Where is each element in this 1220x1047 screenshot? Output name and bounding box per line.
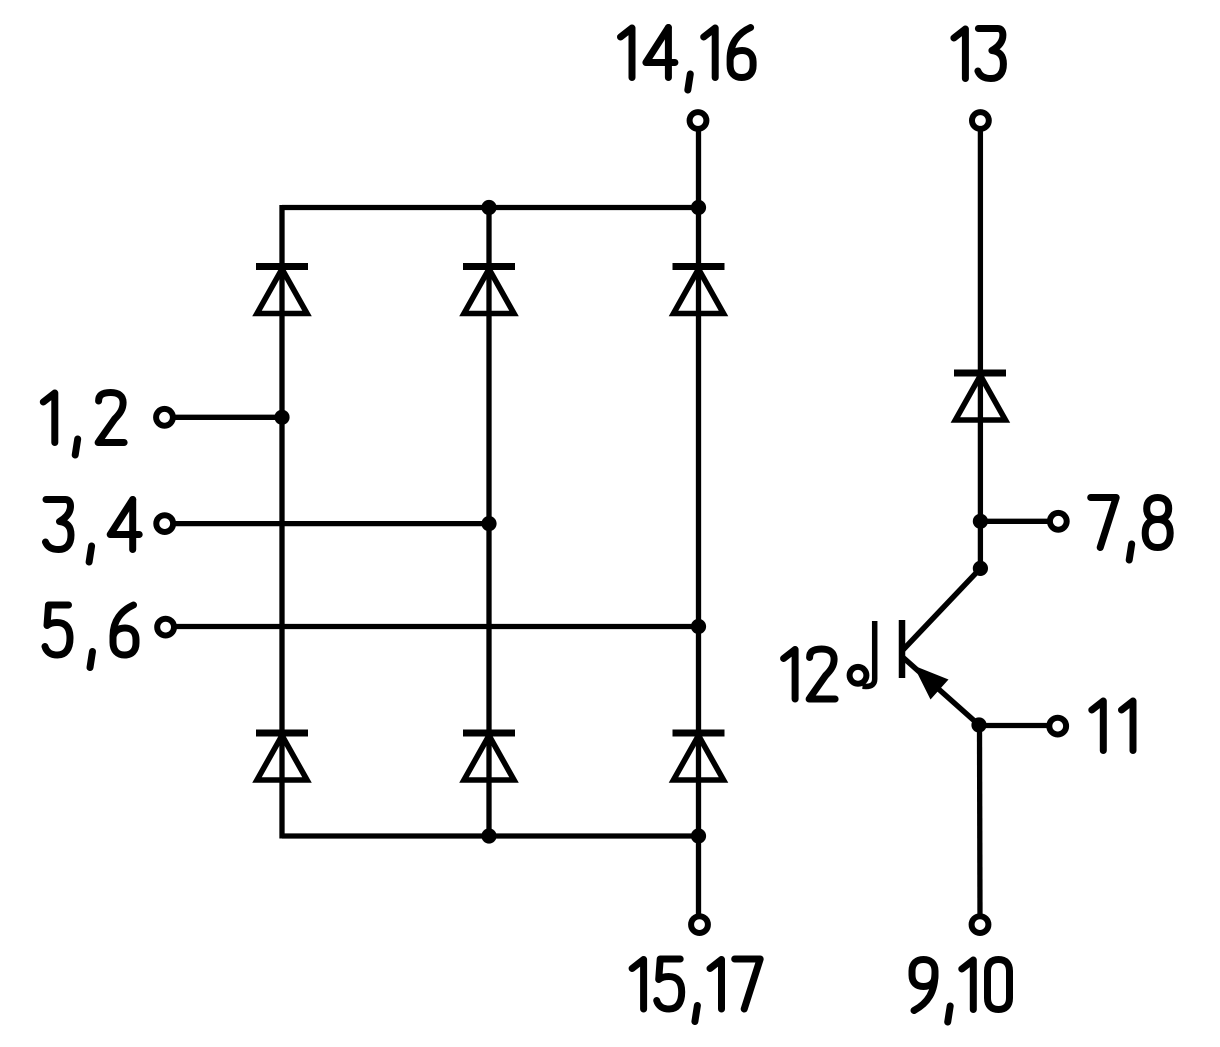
- terminal circle 11: [1049, 718, 1066, 735]
- diode D6 lower-right: triangle: [674, 736, 724, 781]
- diode D2 upper-middle: cathode bar: [463, 263, 515, 270]
- diode D7 right branch: triangle: [955, 376, 1005, 421]
- pin label 15,17: [632, 959, 760, 1022]
- diode D2 upper-middle: triangle: [464, 269, 514, 314]
- junction bottom bus / phase2: [481, 828, 496, 843]
- junction collector node: [973, 561, 988, 576]
- wire top bus: [282, 205, 699, 210]
- transistor Q1 collector lead: [901, 568, 980, 652]
- wire emitter to terminal 9,10: [977, 725, 983, 917]
- junction emitter node: [971, 717, 986, 732]
- terminal circle 15,17: [691, 916, 708, 933]
- transistor Q1 emitter lead: [902, 657, 979, 726]
- diode D7 right branch: cathode bar: [954, 370, 1006, 377]
- wire lead 1,2: [172, 415, 282, 420]
- pin label 11: [1092, 701, 1133, 751]
- terminal circle 5,6: [157, 619, 174, 636]
- pin label 5,6: [45, 605, 136, 668]
- terminal circle 1,2: [156, 409, 173, 426]
- pin label 13: [954, 29, 1004, 79]
- terminal circle 13: [972, 112, 989, 129]
- wire phase1 vertical: [279, 205, 284, 839]
- junction top bus / phase3: [691, 200, 706, 215]
- junction lead 1,2 / phase1: [274, 410, 289, 425]
- diode D6 lower-right: cathode bar: [673, 730, 725, 737]
- terminal circle 14,16: [690, 112, 707, 129]
- wire bottom bus: [282, 833, 699, 838]
- junction top bus / phase2: [481, 200, 496, 215]
- junction lead 5,6 / phase3: [691, 619, 706, 634]
- transistor Q1 body bar: [899, 620, 906, 678]
- junction lead 7,8: [973, 514, 988, 529]
- wire lead 11: [979, 723, 1050, 728]
- pin label 3,4: [46, 500, 140, 563]
- wire lead 3,4: [172, 521, 489, 526]
- terminal circle 3,4: [156, 515, 173, 532]
- diode D3 upper-right: cathode bar: [673, 263, 725, 270]
- wire lead 7,8: [980, 519, 1050, 524]
- terminal circle 12 (gate): [850, 667, 867, 684]
- junction bottom bus / phase3: [691, 828, 706, 843]
- wire phase3 vertical from terminal 14,16 to terminal 15,17: [696, 128, 701, 917]
- pin label 14,16: [621, 28, 754, 91]
- diode D5 lower-middle: cathode bar: [463, 730, 515, 737]
- pin label 12: [784, 649, 836, 699]
- junction lead 3,4 / phase2: [481, 516, 496, 531]
- wire lead 5,6: [173, 624, 699, 629]
- transistor Q1 gate bar: [863, 621, 875, 687]
- pin label 1,2: [43, 393, 124, 456]
- diode D5 lower-middle: triangle: [464, 736, 514, 781]
- diode D1 upper-left: cathode bar: [256, 263, 308, 270]
- diode D3 upper-right: triangle: [674, 269, 724, 314]
- transistor Q1 emitter arrow: [914, 666, 949, 700]
- diode D4 lower-left: triangle: [257, 736, 307, 781]
- terminal circle 7,8: [1050, 513, 1067, 530]
- terminal circle 9,10: [972, 916, 989, 933]
- diode D1 upper-left: triangle: [257, 269, 307, 314]
- diode D4 lower-left: cathode bar: [256, 730, 308, 737]
- pin label 9,10: [912, 960, 1010, 1023]
- pin label 7,8: [1091, 498, 1171, 561]
- wire phase2 vertical: [486, 208, 491, 839]
- wire 13 branch vertical: [978, 128, 983, 570]
